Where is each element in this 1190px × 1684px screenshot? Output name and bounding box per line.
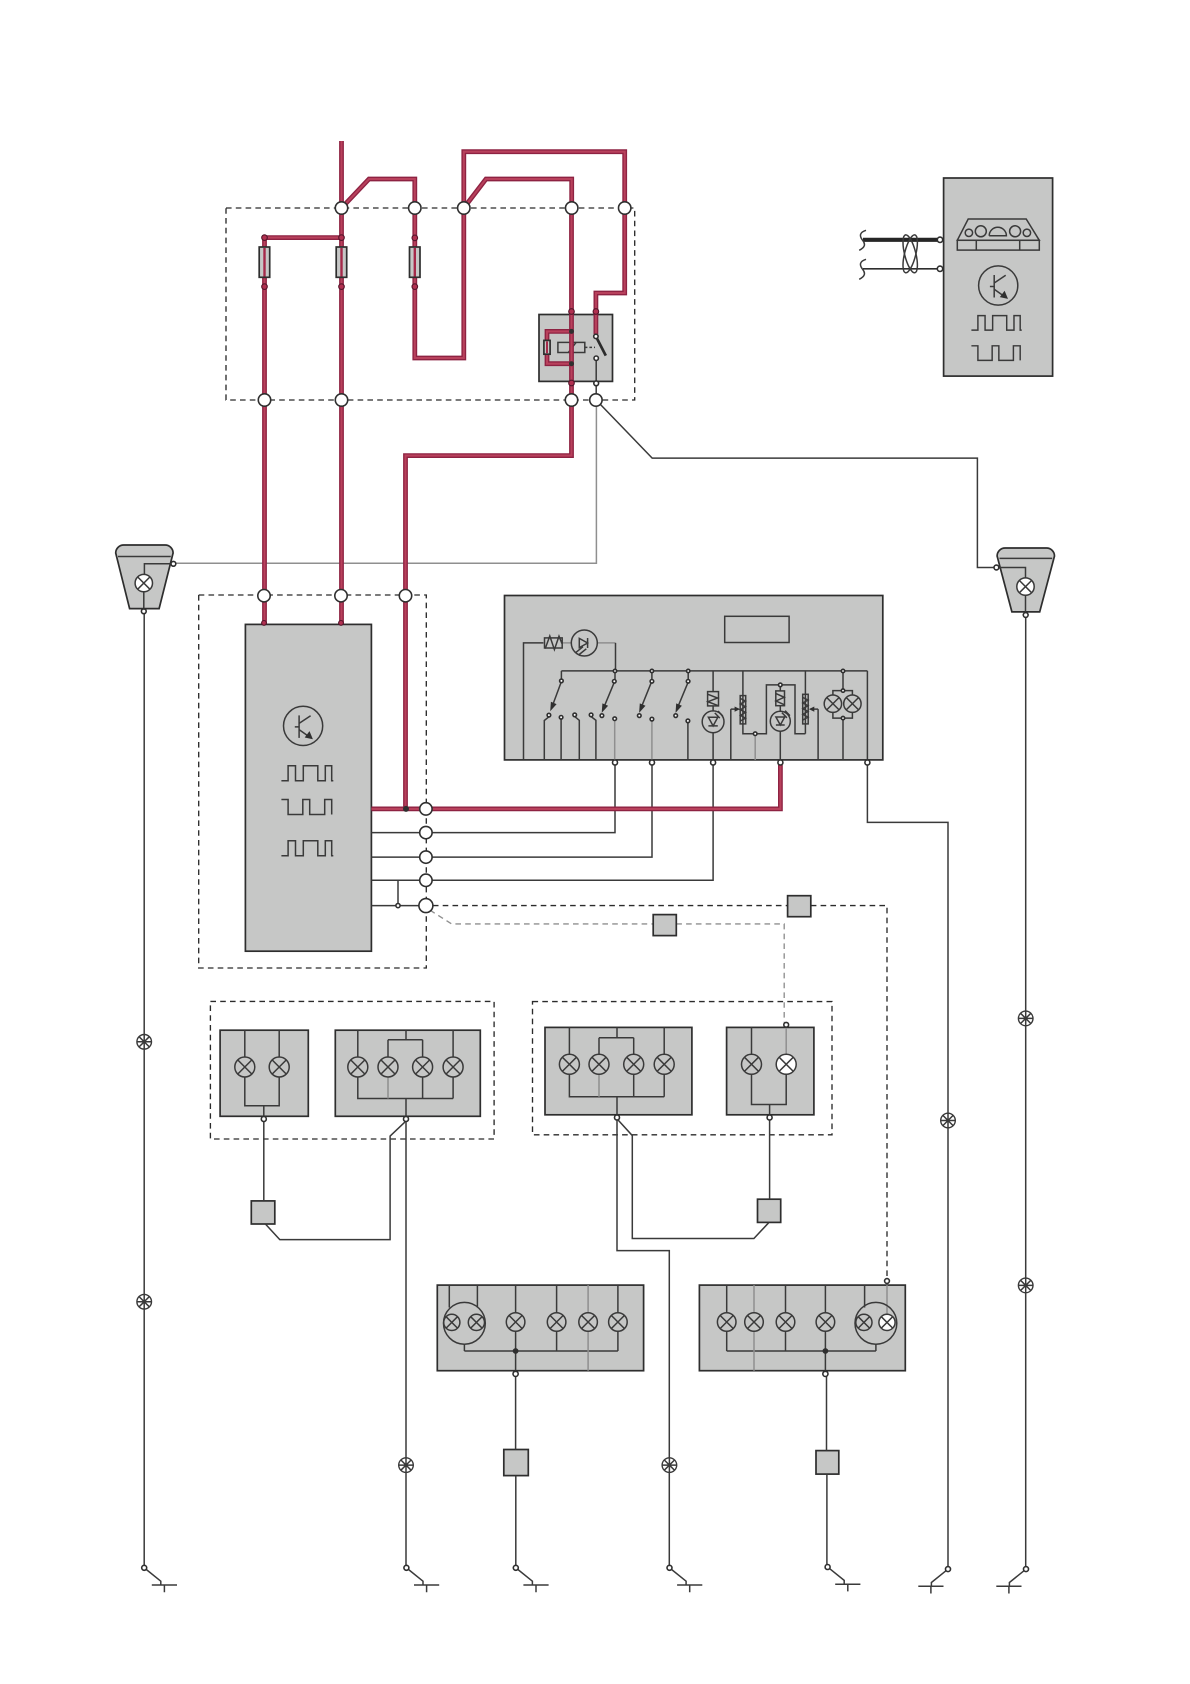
rear right lamp internal wiring [752, 1027, 787, 1115]
switch pivot circles [560, 679, 564, 683]
fuse F3 [410, 247, 421, 277]
connector C1 [653, 915, 676, 936]
cluster transistor icon [979, 266, 1018, 305]
switch pivot stubs [615, 673, 688, 680]
relay K box [539, 315, 613, 382]
rear lamps dashed outline [533, 1002, 833, 1135]
switch contact drops to pins (gray) [615, 720, 652, 760]
fuse box dashed outline [226, 208, 635, 400]
red jumper to relay coil feed [464, 179, 572, 208]
flasher load branch right [782, 671, 805, 734]
wire right repeater to ground [1025, 617, 1027, 1566]
switch contact circles [547, 713, 551, 717]
ground G3 [518, 1570, 549, 1593]
tail right dual-filament bulb [855, 1302, 897, 1344]
flasher branch circles [779, 683, 783, 687]
splice joints [137, 1011, 1033, 1472]
flasher center LED [770, 711, 790, 731]
indicator resistor in switch unit [545, 638, 563, 648]
left side repeater lamp housing [116, 545, 173, 609]
wire switch unit ground to right body ground [867, 765, 948, 1567]
ground G6 [918, 1571, 946, 1594]
left repeater internal wire [144, 564, 176, 609]
flasher center branch [779, 687, 781, 760]
wire front right lamps to ground [405, 1121, 407, 1565]
cluster waveform icons [971, 316, 1021, 331]
switch unit indicator wire to bus [615, 643, 617, 669]
node circles on module box top edge [258, 590, 270, 602]
switch blade S2 [604, 683, 614, 706]
front left lamp assembly box [220, 1030, 308, 1116]
rear left lamp bulbs [559, 1054, 579, 1074]
fuse pin circles [262, 235, 268, 241]
rear left lamp internal wiring [569, 1027, 664, 1115]
flasher center resistor [776, 691, 785, 706]
fuse F1 [259, 247, 270, 277]
flasher load arrow left [731, 709, 739, 760]
switch blade S3 [642, 683, 651, 706]
wire module pin 5 to node [371, 905, 426, 907]
left repeater bulb [135, 574, 152, 591]
wire left repeater to ground [143, 614, 145, 1566]
wire switch unit pin to module (left turn feed) [371, 765, 615, 833]
connector C6 [816, 1451, 839, 1475]
rear right white lamp feed [785, 1022, 787, 1027]
flasher load branch left [743, 671, 779, 734]
switch blade S1 [553, 683, 561, 705]
twisted pair thin wire [863, 268, 938, 270]
wire rear right lamps to connector C4 [769, 1120, 771, 1199]
red supply wire 1 (30-feed) [339, 141, 344, 624]
indicator LED in switch unit [571, 630, 597, 656]
module transistor icon [284, 706, 323, 745]
ground G1 [146, 1570, 177, 1593]
tail left internal wiring [449, 1285, 618, 1373]
relay junction dots [569, 329, 574, 334]
rear right lamp bulbs [742, 1054, 762, 1074]
hazard/turn switch unit box [505, 596, 883, 760]
twisted pair squiggle marks [859, 230, 866, 279]
relay switch blade [597, 338, 606, 356]
wire switch unit pin to module (tell-tale) [371, 765, 713, 880]
ground G2 [409, 1570, 440, 1593]
turn-signal module dashed outline [199, 595, 427, 968]
switch unit indicator wire through lamp [562, 642, 615, 644]
tell-tale branch in switch unit [712, 671, 714, 760]
wire tail cluster left to connector C5 and ground [515, 1377, 517, 1566]
right repeater internal wire [999, 568, 1026, 613]
tail right bulbs [717, 1313, 736, 1332]
red jumper node1-node2 [342, 179, 415, 238]
twisted pair thick wire [863, 238, 938, 242]
switch unit bus junction circles [613, 669, 616, 672]
flasher load arrow right [810, 709, 818, 760]
cluster input pins [937, 237, 942, 242]
wire switch unit pin to module (right turn feed) [371, 765, 652, 857]
right side repeater lamp housing [997, 548, 1054, 612]
node circles on fuse box bottom edge [258, 394, 270, 406]
front right lamp internal wiring [358, 1030, 453, 1116]
tail left dual-filament bulb [444, 1302, 486, 1344]
front lamps dashed outline [210, 1001, 494, 1139]
lamp pair in switch unit [824, 695, 841, 712]
lamp pair rails in switch unit [833, 673, 853, 760]
front left lamp internal wiring [245, 1030, 279, 1116]
fuse F2 [336, 247, 347, 277]
ground G4 [672, 1570, 703, 1593]
relay switch contact circles [594, 334, 598, 338]
tail cluster pins [513, 1371, 518, 1376]
red module output to switch unit [371, 765, 780, 809]
tell-tale resistor [708, 692, 719, 706]
module supply pin circles [262, 621, 267, 626]
wire tail cluster right to connector C6 and ground [826, 1377, 828, 1565]
cluster dashboard icon [957, 219, 1039, 240]
wire module branch to pin circle [397, 880, 399, 903]
switch unit empty rect [725, 616, 789, 642]
front left lamp bulbs [235, 1057, 255, 1077]
wire relay switch output to right repeater [600, 404, 995, 568]
wire front left lamps to connector C3 [263, 1121, 265, 1201]
dashed wire to connector C1 and rear right lamp cluster [430, 910, 784, 1022]
switch blade S4 [678, 683, 688, 706]
connector C5 [504, 1450, 529, 1476]
twist symbol [900, 234, 920, 275]
right repeater bulb [1017, 578, 1034, 595]
module branch pin [396, 904, 400, 908]
wire rear left lamps to connector C4 [618, 1120, 768, 1238]
connector C3 [251, 1201, 274, 1224]
ground G7 [996, 1571, 1024, 1594]
relay coil series resistor [544, 340, 550, 354]
wire relay switch output to left repeater (gray) [176, 406, 597, 563]
switch unit indicator feed wire [524, 643, 544, 759]
wire rear left lamps to ground [617, 1120, 669, 1567]
flasher gray tap [754, 735, 756, 760]
instrument cluster box [944, 178, 1053, 376]
rear left lamp assembly box [545, 1027, 692, 1114]
wire front right lamps to C3 via loop [265, 1122, 405, 1240]
relay switch contact lead [595, 360, 597, 393]
switch unit bottom pins [613, 760, 618, 765]
rear right lamp assembly box [727, 1027, 814, 1114]
relay pin circles [569, 309, 575, 315]
node circles on fuse box top edge [335, 202, 347, 214]
tail right internal wiring [727, 1285, 876, 1373]
lamp assembly pins [261, 1117, 266, 1122]
relay coil box (under red) [558, 342, 585, 352]
tail lamp cluster left box [437, 1285, 643, 1371]
PTC resistor right [803, 694, 809, 724]
tell-tale LED [702, 711, 724, 733]
repeater pins [171, 561, 176, 566]
red fuse3 lower loop [415, 152, 625, 358]
node circles on module box right edge [420, 803, 432, 815]
junction dot tail left [513, 1348, 519, 1354]
connector C2 [788, 896, 811, 917]
ground G5 [830, 1569, 861, 1592]
turn-signal module box [245, 624, 371, 951]
dashed wire to connector C2 and right tail lamp [433, 906, 887, 1279]
red main feed through relay to module [406, 208, 572, 809]
front right lamp assembly box [335, 1030, 480, 1116]
ground attachment circles [142, 1565, 147, 1570]
switch unit supply bus [561, 671, 867, 760]
PTC resistor left [740, 696, 746, 724]
connector C4 [758, 1199, 781, 1222]
front right lamp bulbs [348, 1057, 368, 1077]
red jumper fuse1-fuse2 [265, 238, 342, 624]
module waveform icons [281, 766, 333, 781]
red relay coil loop [547, 331, 572, 363]
tail left bulbs [506, 1313, 525, 1332]
junction dot tail right [823, 1348, 829, 1354]
tail lamp cluster right box [699, 1285, 905, 1371]
junction dot module output [403, 806, 409, 812]
switch contact drops [544, 717, 688, 760]
